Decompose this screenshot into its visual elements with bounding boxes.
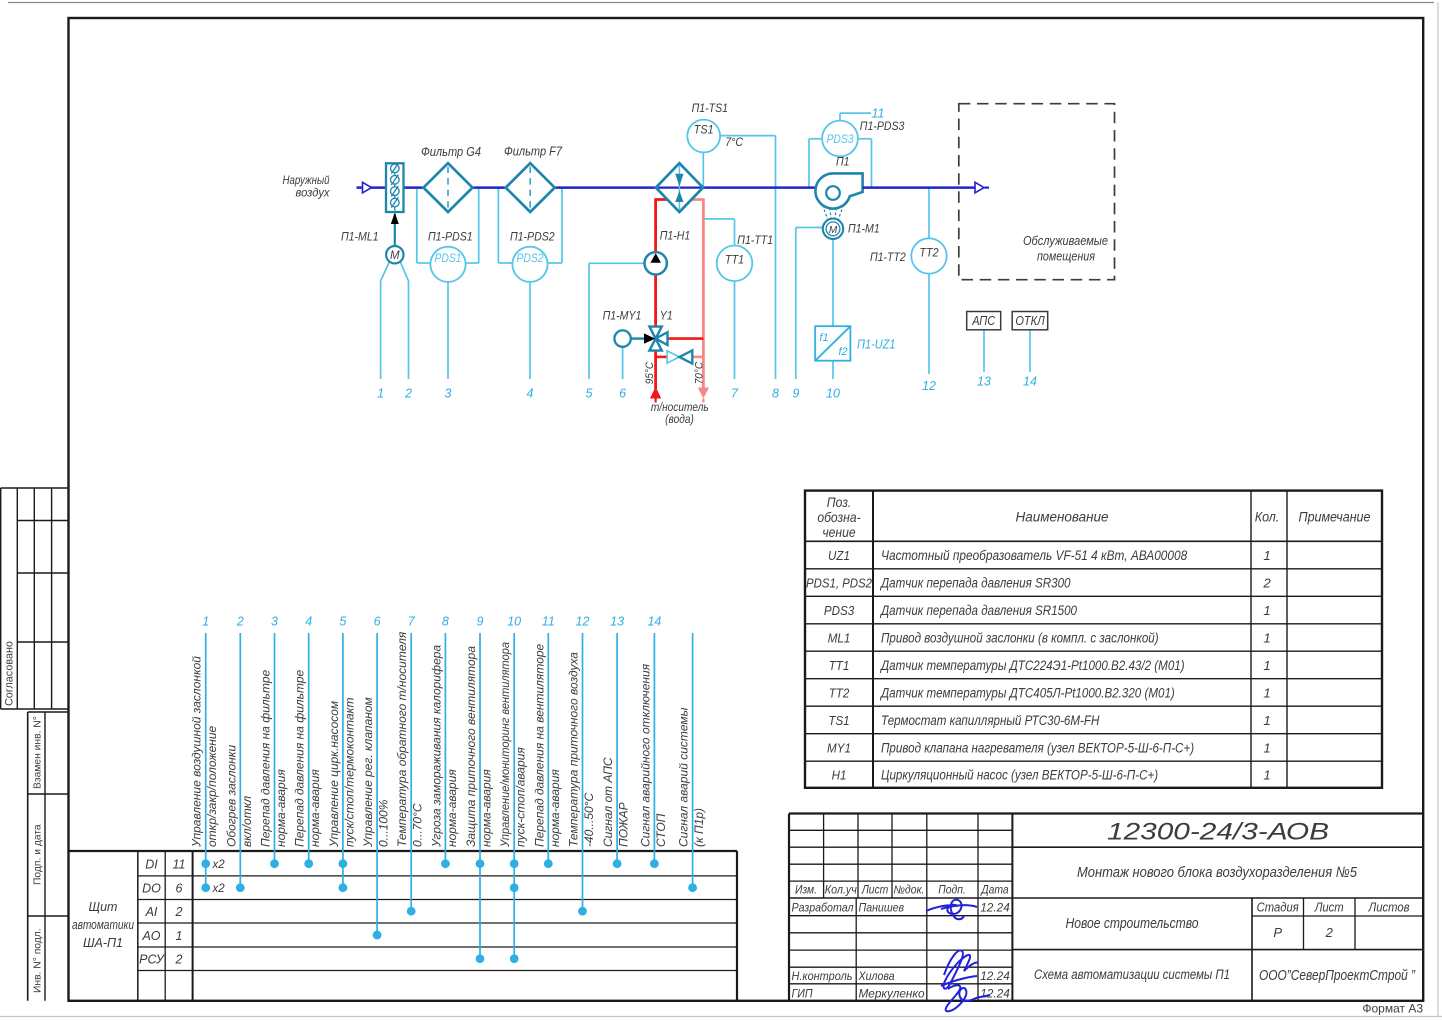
- svg-text:Новое строительство: Новое строительство: [1066, 915, 1199, 932]
- svg-text:10: 10: [507, 615, 521, 629]
- svg-text:13: 13: [977, 375, 991, 389]
- svg-text:Согласовано: Согласовано: [4, 641, 16, 706]
- svg-text:2: 2: [1325, 925, 1334, 940]
- svg-text:Подп. и дата: Подп. и дата: [33, 824, 44, 885]
- svg-text:т/носитель: т/носитель: [651, 402, 709, 414]
- svg-text:Управление воздушной заслонкой: Управление воздушной заслонкой: [190, 656, 204, 848]
- svg-text:6: 6: [619, 387, 626, 401]
- svg-text:1: 1: [176, 929, 183, 943]
- svg-text:6: 6: [176, 882, 183, 896]
- svg-text:x2: x2: [212, 883, 226, 895]
- svg-text:0...70°С: 0...70°С: [411, 803, 425, 847]
- svg-text:Листов: Листов: [1368, 901, 1410, 915]
- svg-text:1: 1: [202, 615, 209, 629]
- svg-text:13: 13: [610, 615, 624, 629]
- svg-text:Примечание: Примечание: [1299, 510, 1371, 526]
- svg-text:Инв. N° подл.: Инв. N° подл.: [33, 928, 44, 993]
- svg-text:Перепад давления на фильтре: Перепад давления на фильтре: [259, 669, 273, 847]
- svg-text:1: 1: [1263, 713, 1270, 728]
- svg-text:Датчик перепада давления SR300: Датчик перепада давления SR300: [879, 575, 1071, 590]
- svg-text:П1-PDS1: П1-PDS1: [428, 229, 473, 243]
- svg-text:Сигнал аварийного отключения: Сигнал аварийного отключения: [638, 663, 652, 847]
- svg-text:70°С: 70°С: [693, 361, 705, 384]
- svg-text:5: 5: [586, 387, 593, 401]
- svg-text:7: 7: [408, 615, 416, 629]
- svg-text:П1-TT1: П1-TT1: [737, 233, 773, 247]
- svg-text:Щит: Щит: [89, 900, 118, 914]
- svg-text:ПОЖАР: ПОЖАР: [617, 802, 631, 847]
- svg-text:Y1: Y1: [660, 309, 673, 323]
- svg-text:АПС: АПС: [971, 314, 996, 328]
- svg-text:норма-авария: норма-авария: [274, 769, 288, 847]
- svg-text:12.24: 12.24: [980, 969, 1010, 983]
- svg-text:2: 2: [1262, 575, 1271, 590]
- svg-text:1: 1: [1263, 603, 1270, 618]
- svg-text:Схема автоматизации системы П1: Схема автоматизации системы П1: [1034, 967, 1230, 982]
- svg-text:П1-М1: П1-М1: [848, 221, 880, 235]
- svg-text:Термостат капиллярный РТС30-6М: Термостат капиллярный РТС30-6М-FH: [881, 713, 1100, 728]
- svg-text:12: 12: [576, 615, 590, 629]
- svg-text:Взамен инв. N°: Взамен инв. N°: [33, 716, 44, 789]
- svg-text:2: 2: [404, 387, 412, 401]
- svg-text:9: 9: [792, 387, 799, 401]
- svg-text:3: 3: [445, 387, 452, 401]
- svg-text:ML1: ML1: [828, 630, 851, 645]
- svg-text:П1-Н1: П1-Н1: [660, 229, 691, 243]
- svg-text:№док.: №док.: [894, 885, 925, 897]
- svg-text:95°С: 95°С: [644, 361, 656, 384]
- svg-text:Формат А3: Формат А3: [1362, 1002, 1423, 1016]
- svg-text:П1-МY1: П1-МY1: [603, 309, 642, 323]
- svg-text:ГИП: ГИП: [792, 987, 814, 1001]
- svg-text:PDS3: PDS3: [827, 134, 855, 146]
- svg-text:3: 3: [271, 615, 278, 629]
- svg-text:12: 12: [922, 379, 936, 393]
- svg-text:РСУ: РСУ: [139, 953, 166, 967]
- svg-text:П1-ML1: П1-ML1: [341, 229, 379, 243]
- svg-text:Датчик температуры ДТС405Л-Pt1: Датчик температуры ДТС405Л-Pt1000.В2.320…: [879, 685, 1175, 700]
- svg-text:f1: f1: [820, 332, 829, 344]
- svg-text:PDS1: PDS1: [435, 253, 462, 265]
- svg-text:Поз.: Поз.: [827, 495, 851, 510]
- svg-text:8: 8: [772, 387, 779, 401]
- svg-text:4: 4: [305, 615, 312, 629]
- svg-text:(вода): (вода): [665, 414, 694, 426]
- svg-text:норма-авария: норма-авария: [445, 769, 459, 847]
- svg-text:пуск-стоп/авария: пуск-стоп/авария: [514, 747, 528, 847]
- svg-text:-40...50°С: -40...50°С: [582, 793, 596, 847]
- svg-text:H1: H1: [832, 767, 847, 782]
- svg-text:Циркуляционный насос (узел ВЕК: Циркуляционный насос (узел ВЕКТОР-5-Ш-6-…: [881, 767, 1158, 782]
- svg-text:2: 2: [175, 905, 183, 919]
- svg-text:Сигнал аварий системы: Сигнал аварий системы: [677, 707, 691, 847]
- svg-text:4: 4: [527, 387, 534, 401]
- svg-text:Перепад давления на вентилятор: Перепад давления на вентиляторе: [532, 643, 546, 847]
- svg-text:M: M: [390, 250, 400, 262]
- svg-text:Н.контроль: Н.контроль: [792, 969, 853, 983]
- svg-text:DO: DO: [142, 882, 161, 896]
- svg-text:Датчик перепада давления SR150: Датчик перепада давления SR1500: [879, 603, 1077, 618]
- svg-text:П1-PDS3: П1-PDS3: [860, 119, 905, 133]
- svg-text:Фильтр F7: Фильтр F7: [504, 145, 563, 159]
- svg-text:П1-TT2: П1-TT2: [870, 250, 906, 264]
- svg-text:Обогрев заслонки: Обогрев заслонки: [224, 745, 238, 847]
- svg-text:2: 2: [236, 615, 244, 629]
- svg-text:ША-П1: ША-П1: [83, 936, 123, 950]
- svg-text:2: 2: [175, 953, 183, 967]
- svg-text:AO: AO: [141, 929, 160, 943]
- svg-text:откр/закр/положение: откр/закр/положение: [205, 725, 219, 847]
- svg-text:7°С: 7°С: [725, 135, 743, 149]
- svg-text:Обслуживаемые: Обслуживаемые: [1023, 234, 1108, 248]
- svg-text:П1-TS1: П1-TS1: [692, 101, 728, 115]
- svg-text:8: 8: [442, 615, 449, 629]
- svg-text:Привод клапана нагревателя (уз: Привод клапана нагревателя (узел ВЕКТОР-…: [881, 740, 1194, 755]
- svg-text:TS1: TS1: [828, 713, 849, 728]
- svg-text:x2: x2: [212, 859, 226, 871]
- svg-text:MY1: MY1: [827, 740, 851, 755]
- svg-text:Привод воздушной заслонки (в к: Привод воздушной заслонки (в компл. с за…: [881, 630, 1159, 645]
- svg-text:СТОП: СТОП: [654, 813, 668, 847]
- svg-text:Дата: Дата: [980, 885, 1009, 897]
- svg-text:(к П1р): (к П1р): [692, 808, 706, 847]
- svg-text:вкл/откл: вкл/откл: [240, 796, 254, 847]
- svg-text:PDS3: PDS3: [824, 603, 855, 618]
- svg-text:UZ1: UZ1: [828, 548, 850, 563]
- svg-text:ОТКЛ: ОТКЛ: [1015, 314, 1045, 328]
- svg-text:воздух: воздух: [296, 186, 331, 200]
- svg-text:7: 7: [731, 387, 739, 401]
- svg-text:DI: DI: [145, 858, 158, 872]
- svg-text:5: 5: [339, 615, 346, 629]
- svg-text:M: M: [829, 225, 838, 236]
- svg-text:Перепад давления на фильтре: Перепад давления на фильтре: [293, 669, 307, 847]
- svg-text:1: 1: [1263, 630, 1270, 645]
- svg-text:9: 9: [477, 615, 484, 629]
- svg-text:Лист: Лист: [1314, 901, 1344, 915]
- svg-text:норма-авария: норма-авария: [548, 769, 562, 847]
- svg-text:П1: П1: [836, 155, 850, 169]
- svg-text:Р: Р: [1273, 925, 1282, 940]
- svg-text:12.24: 12.24: [980, 901, 1010, 915]
- svg-text:пуск/стоп/термоконтакт: пуск/стоп/термоконтакт: [342, 698, 356, 847]
- svg-text:Лист: Лист: [861, 885, 889, 897]
- svg-text:чение: чение: [822, 525, 855, 540]
- svg-text:12300-24/3-АОВ: 12300-24/3-АОВ: [1107, 819, 1329, 846]
- svg-text:Угроза замораживания калорифер: Угроза замораживания калорифера: [429, 645, 443, 848]
- svg-text:PDS1, PDS2: PDS1, PDS2: [806, 575, 873, 590]
- svg-text:1: 1: [1263, 767, 1270, 782]
- svg-text:Стадия: Стадия: [1257, 901, 1299, 915]
- svg-text:PDS2: PDS2: [517, 253, 545, 265]
- svg-text:норма-авария: норма-авария: [480, 769, 494, 847]
- svg-text:14: 14: [647, 615, 661, 629]
- svg-text:Меркуленко: Меркуленко: [859, 987, 925, 1001]
- svg-text:Управление/мониторинг вентилят: Управление/мониторинг вентилятора: [498, 642, 512, 848]
- svg-text:Кол.: Кол.: [1255, 510, 1280, 526]
- svg-text:6: 6: [374, 615, 381, 629]
- svg-text:Температура обратного т/носите: Температура обратного т/носителя: [395, 631, 409, 847]
- svg-text:Частотный преобразователь VF-: Частотный преобразователь VF-51 4 кВт, А…: [881, 548, 1188, 563]
- svg-text:Температура приточного воздуха: Температура приточного воздуха: [567, 652, 581, 847]
- svg-text:Изм.: Изм.: [795, 885, 817, 897]
- svg-text:TT1: TT1: [725, 253, 744, 267]
- svg-text:1: 1: [377, 387, 384, 401]
- svg-text:0...100%: 0...100%: [377, 799, 391, 847]
- svg-text:Кол.уч: Кол.уч: [825, 885, 857, 897]
- svg-text:1: 1: [1263, 685, 1270, 700]
- svg-text:Разработал: Разработал: [792, 901, 854, 915]
- svg-text:TT1: TT1: [829, 658, 850, 673]
- svg-text:Управление цирк.насосом: Управление цирк.насосом: [327, 701, 341, 848]
- svg-text:ООО”СеверПроектСтрой ”: ООО”СеверПроектСтрой ”: [1259, 967, 1416, 984]
- svg-text:11: 11: [542, 615, 555, 629]
- svg-text:Хилова: Хилова: [858, 969, 895, 983]
- svg-text:f2: f2: [839, 346, 848, 358]
- svg-text:Датчик температуры ДТС224Э1-Pt: Датчик температуры ДТС224Э1-Pt1000.В2.43…: [879, 658, 1184, 673]
- svg-text:11: 11: [173, 858, 186, 872]
- svg-text:Монтаж нового блока воздухораз: Монтаж нового блока воздухоразделения №5: [1077, 864, 1358, 881]
- svg-text:Фильтр G4: Фильтр G4: [421, 145, 481, 159]
- svg-text:1: 1: [1263, 740, 1270, 755]
- svg-text:TT2: TT2: [829, 685, 850, 700]
- svg-text:Сигнал от АПС: Сигнал от АПС: [601, 757, 615, 847]
- svg-text:10: 10: [826, 387, 840, 401]
- svg-text:Панишев: Панишев: [859, 901, 905, 915]
- svg-text:TT2: TT2: [919, 246, 938, 260]
- svg-text:Наименование: Наименование: [1016, 510, 1109, 526]
- svg-text:12.24: 12.24: [980, 987, 1010, 1001]
- svg-text:11: 11: [872, 107, 885, 121]
- svg-text:автоматики: автоматики: [72, 918, 134, 932]
- svg-text:Защита приточного вентилятора: Защита приточного вентилятора: [464, 646, 478, 847]
- svg-text:помещения: помещения: [1037, 249, 1095, 263]
- svg-text:обозна-: обозна-: [817, 510, 861, 525]
- svg-text:1: 1: [1263, 548, 1270, 563]
- svg-text:1: 1: [1263, 658, 1270, 673]
- svg-text:AI: AI: [145, 905, 158, 919]
- svg-text:TS1: TS1: [694, 123, 714, 137]
- svg-text:Подп.: Подп.: [938, 885, 966, 897]
- svg-text:П1-PDS2: П1-PDS2: [510, 229, 555, 243]
- svg-text:норма-авария: норма-авария: [308, 769, 322, 847]
- svg-text:14: 14: [1023, 375, 1037, 389]
- svg-text:Управление рег. клапаном: Управление рег. клапаном: [361, 697, 375, 848]
- svg-text:П1-UZ1: П1-UZ1: [857, 338, 896, 352]
